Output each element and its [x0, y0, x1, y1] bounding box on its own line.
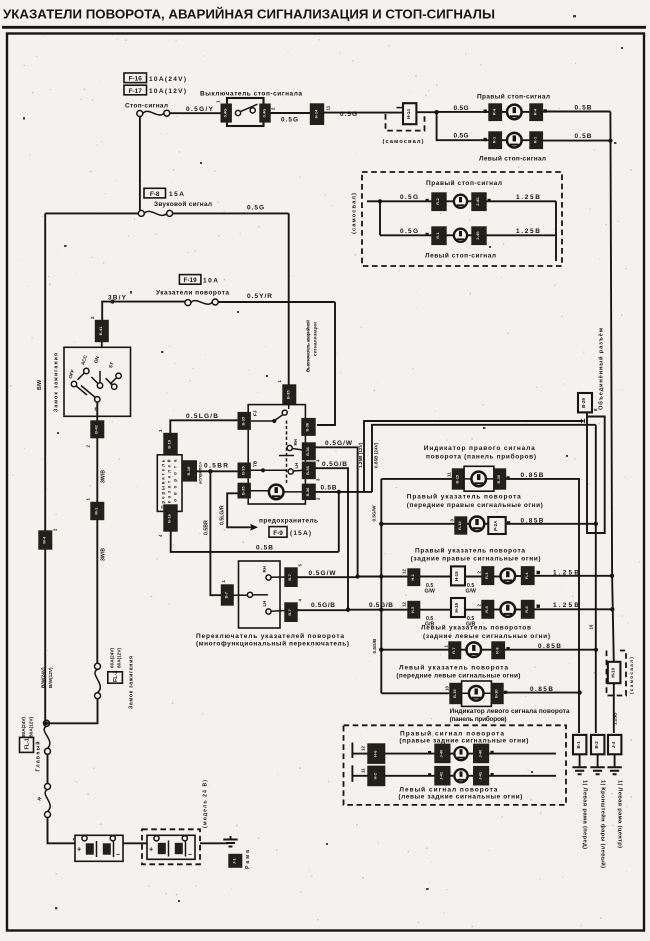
lamp left stop (dump): [454, 229, 467, 242]
node row3 right bus: [610, 574, 614, 578]
connector R-4 left: [489, 104, 501, 120]
svg-text:B-36: B-36: [305, 487, 310, 496]
wire: [521, 111, 530, 113]
terminal RH out: [285, 568, 297, 586]
wire 0.85B(24V) riser: [372, 425, 596, 492]
wire drop to hazard switch top: [288, 213, 290, 385]
pin tick: [491, 773, 494, 776]
svg-text:0.5Y/R: 0.5Y/R: [247, 293, 272, 300]
ground frame: [223, 836, 237, 847]
wire horn feed left: [45, 212, 138, 214]
svg-text:B-30: B-30: [493, 689, 498, 698]
right return bus: [610, 112, 613, 734]
node stop split: [434, 110, 438, 114]
svg-text:Левый стоп-сигнал: Левый стоп-сигнал: [479, 155, 546, 163]
svg-text:11: 11: [326, 105, 331, 110]
connector H-14 dump-truck variant: [397, 103, 417, 124]
svg-text:RH: RH: [293, 439, 298, 445]
wire B-42 down: [96, 438, 98, 503]
connector P-2A: [488, 517, 505, 534]
pilot lamp hazard: [269, 485, 284, 500]
connector B-15: [453, 469, 465, 489]
svg-text:H-1: H-1: [410, 573, 415, 580]
svg-text:B-7: B-7: [287, 608, 292, 615]
svg-text:G/W: G/W: [425, 589, 435, 595]
wire 1.25B(12V) riser: [364, 421, 583, 492]
svg-text:80A(24V): 80A(24V): [21, 716, 26, 737]
node row2 bus2: [594, 522, 598, 526]
svg-text:+: +: [149, 845, 153, 854]
wire row6 indicator left: [381, 692, 450, 694]
wire stop fuse drop: [139, 117, 141, 211]
svg-text:Замок зажигания: Замок зажигания: [129, 656, 135, 709]
svg-text:B-36: B-36: [305, 465, 310, 474]
contact OFF: [68, 369, 87, 395]
connector R-1 left: [489, 132, 501, 148]
wire: [515, 609, 522, 611]
svg-text:B-15: B-15: [455, 474, 460, 483]
svg-text:J-41: J-41: [439, 771, 444, 780]
svg-text:F-17: F-17: [129, 88, 143, 95]
connector J-41: [435, 767, 450, 785]
svg-text:Замок зажигания: Замок зажигания: [54, 353, 60, 412]
wire RH out to row3: [297, 576, 358, 578]
contact LH turn: [262, 601, 285, 614]
svg-text:H-15: H-15: [454, 571, 459, 581]
svg-text:11: 11: [361, 768, 366, 773]
lamp left stop-signal: [507, 133, 522, 148]
terminal LH out: [285, 603, 297, 621]
svg-text:3B/Y: 3B/Y: [108, 294, 127, 301]
terminal BL fuse feed: [238, 483, 250, 497]
ground left frame front: [572, 754, 586, 774]
node 0.5BR: [208, 469, 212, 473]
wire: [468, 753, 474, 755]
svg-text:Левый указатель поворота: Левый указатель поворота: [399, 663, 508, 671]
lamp front left turn: [467, 642, 482, 657]
svg-text:R-1: R-1: [532, 136, 537, 143]
wire LH out to row4: [297, 609, 348, 611]
svg-text:Правый указатель поворота: Правый указатель поворота: [415, 546, 525, 554]
terminal RH: [303, 443, 316, 460]
wire: [467, 200, 472, 202]
contact RH turn: [262, 566, 285, 580]
node row3 bus: [379, 574, 383, 578]
svg-text:H-10: H-10: [610, 667, 615, 677]
svg-text:–: –: [188, 850, 192, 859]
connector H-5: [408, 602, 420, 618]
fuse label F-8: [144, 188, 184, 198]
node row6 bus1: [577, 690, 581, 694]
lamp right stop (dump): [454, 195, 467, 208]
label 60A(24V) 80A(12V) vertical: [110, 647, 122, 668]
svg-text:поворота (панель приборов): поворота (панель приборов): [426, 452, 536, 460]
svg-text:B-7: B-7: [224, 591, 229, 598]
svg-text:(задние левые сигнальные огни): (задние левые сигнальные огни): [423, 633, 550, 640]
dashed box H-10: [607, 651, 627, 696]
connector R-4: [522, 567, 534, 585]
connector H-10: [608, 662, 621, 683]
svg-text:B-29: B-29: [581, 398, 586, 408]
svg-text:J-40: J-40: [439, 749, 444, 758]
wire row6 to bus1: [503, 692, 580, 694]
svg-text:0.5B: 0.5B: [321, 485, 337, 492]
node row4 LH feed: [346, 608, 350, 612]
wire FL-2 to left bus: [46, 699, 98, 724]
svg-text:R-8: R-8: [494, 647, 499, 654]
connector R-7: [449, 642, 461, 659]
svg-text:B-15: B-15: [452, 689, 457, 698]
svg-text:Правый сигнал поворота: Правый сигнал поворота: [400, 729, 504, 737]
wire 0.5BR B-18 to hazard TB: [196, 470, 238, 472]
svg-text:R-5: R-5: [484, 606, 489, 613]
indicator lamp left: [469, 686, 484, 701]
wire to right: [486, 200, 556, 202]
dashed variant box (самосвал): [386, 114, 425, 131]
fuse F-8 horn: [138, 210, 172, 216]
wire row3 to right bus: [534, 575, 612, 577]
contact LH: [288, 463, 303, 474]
connector R-2: [432, 193, 446, 210]
wire right stop row: [380, 200, 432, 202]
svg-text:0.5G: 0.5G: [281, 117, 298, 124]
lamp rear right dump: [454, 747, 467, 760]
svg-text:–: –: [116, 850, 120, 859]
indicator lamp right: [471, 472, 486, 487]
svg-text:0.5B: 0.5B: [575, 133, 592, 140]
connector B-19: [164, 434, 177, 455]
fusible link FL-2: [95, 663, 101, 698]
svg-text:FL-1: FL-1: [25, 738, 31, 749]
svg-text:1.25B (12V): 1.25B (12V): [358, 442, 363, 468]
wire B-7 into box: [233, 594, 247, 596]
connector B-30: [491, 684, 503, 704]
svg-text:(левые задние сигнальные огни): (левые задние сигнальные огни): [398, 793, 522, 800]
fuse label F-17: [124, 85, 186, 95]
wire label 0.5 G/B stacked: [425, 616, 434, 628]
battery 24V model dashed: [142, 829, 200, 864]
bus 0.85B 24V down: [595, 425, 597, 733]
wire: [446, 234, 454, 236]
ignition switch box: [64, 347, 131, 416]
svg-text:80A(12V): 80A(12V): [117, 647, 122, 668]
contact aux: [110, 373, 121, 384]
wire: [494, 609, 501, 611]
svg-text:B-36: B-36: [305, 422, 310, 431]
contact ACC: [78, 354, 90, 380]
svg-text:R-14: R-14: [457, 521, 462, 530]
stop lamp switch U1: [221, 98, 270, 126]
wire drop to hazard B-36: [317, 302, 335, 425]
svg-text:Левый указатель поворотов: Левый указатель поворотов: [421, 624, 531, 632]
svg-text:1| Левая рама (перед): 1| Левая рама (перед): [581, 780, 587, 849]
svg-text:J-1: J-1: [231, 858, 236, 865]
svg-text:0.5G/Y: 0.5G/Y: [186, 106, 214, 113]
svg-text:(панель приборов): (панель приборов): [450, 715, 507, 723]
connector R-5: [482, 601, 494, 619]
svg-text:H-6: H-6: [373, 750, 378, 757]
node row4 bus: [379, 608, 383, 612]
svg-text:B/W(24V): B/W(24V): [41, 667, 46, 688]
connector H-14: [311, 104, 324, 124]
wire left stop lamp row: [452, 139, 489, 141]
svg-text:J-4: J-4: [611, 741, 616, 748]
svg-text:0.5LG/R: 0.5LG/R: [220, 505, 226, 525]
wire: [468, 775, 474, 777]
svg-text:F-16: F-16: [129, 76, 143, 83]
pin tick: [428, 751, 431, 754]
lamp front right turn: [470, 517, 485, 532]
svg-text:3W/B: 3W/B: [101, 548, 107, 561]
svg-text:B-36: B-36: [305, 446, 310, 455]
pin tick: [504, 691, 507, 694]
svg-text:Левый стоп-сигнал: Левый стоп-сигнал: [425, 252, 496, 260]
svg-text:0.85B: 0.85B: [521, 472, 544, 479]
fuse label F-16: [124, 73, 186, 83]
terminal LH: [303, 462, 316, 478]
wire M-1 down to FL-2: [96, 520, 98, 664]
wire between links: [47, 754, 49, 783]
connector 2-4S: [472, 227, 486, 244]
svg-text:B-41: B-41: [98, 326, 103, 335]
node row2: [379, 522, 383, 526]
wire ignition feed corner: [102, 302, 185, 321]
lamp rear right turn: [501, 569, 516, 584]
svg-text:(правые задние сигнальные огни: (правые задние сигнальные огни): [399, 738, 528, 745]
wire: [494, 576, 501, 578]
lamp rear left dump: [454, 769, 467, 782]
connector H-15: [451, 566, 465, 585]
svg-text:Правый указатель поворота: Правый указатель поворота: [407, 493, 521, 501]
svg-text:B-18: B-18: [186, 466, 191, 475]
hazard switch box: [248, 405, 305, 504]
svg-text:Правый стоп-сигнал: Правый стоп-сигнал: [426, 179, 502, 187]
svg-text:80A(12V): 80A(12V): [29, 716, 34, 737]
wire 0.5G/B LH out: [315, 468, 348, 610]
connector R-1: [432, 227, 446, 244]
svg-text:B/W(12V): B/W(12V): [48, 667, 53, 688]
ground headlamp bracket: [590, 754, 604, 774]
svg-text:R-4: R-4: [532, 108, 537, 115]
svg-text:F-9: F-9: [273, 530, 283, 537]
svg-text:Выключатель аварийной: Выключатель аварийной: [305, 320, 311, 372]
svg-text:H-14: H-14: [406, 109, 411, 119]
wire stop fuse to switch: [170, 112, 221, 114]
node row3 RH feed: [355, 574, 359, 578]
indicator lamp housing left: [462, 681, 492, 706]
svg-text:0.5G: 0.5G: [340, 111, 357, 118]
connector J-40 right: [474, 744, 489, 762]
svg-text:B-7: B-7: [287, 573, 292, 580]
svg-text:M-1: M-1: [94, 507, 99, 515]
svg-text:0.85B: 0.85B: [538, 643, 561, 650]
svg-text:B-35: B-35: [240, 486, 245, 495]
wire: [420, 576, 451, 578]
pin tick: [426, 199, 429, 202]
pin tick: [426, 233, 429, 236]
title: [2, 7, 646, 28]
svg-text:0.5G/W: 0.5G/W: [325, 440, 353, 447]
svg-text:H-5: H-5: [410, 606, 415, 613]
wire 0.5BR drop to turn switch: [210, 471, 221, 595]
svg-text:1.25B: 1.25B: [613, 712, 618, 725]
svg-text:0.85B (24V): 0.85B (24V): [374, 442, 379, 468]
wire left battery bus B/W: [44, 213, 46, 721]
svg-text:B-35: B-35: [286, 390, 291, 399]
connector B-35: [283, 385, 296, 404]
svg-text:B-42: B-42: [94, 424, 99, 433]
svg-text:2-4S: 2-4S: [475, 197, 480, 206]
wire 0.5G/W RH out: [315, 447, 358, 576]
fusible link lower: [45, 784, 51, 818]
pin tick: [507, 647, 510, 650]
svg-text:Переключатель указателей повор: Переключатель указателей поворота: [196, 632, 344, 640]
svg-text:0.5BR: 0.5BR: [204, 520, 210, 535]
lamp right stop-signal: [507, 105, 522, 120]
node left bus: [378, 199, 382, 203]
cross tick: [279, 455, 294, 457]
wire: [467, 523, 470, 525]
svg-text:R-3: R-3: [484, 572, 489, 579]
svg-text:0.5G/B: 0.5G/B: [322, 461, 347, 468]
svg-text:FL-2: FL-2: [113, 671, 119, 682]
svg-text:(передние левые сигнальные огн: (передние левые сигнальные огни): [396, 673, 520, 680]
svg-text:Рама: Рама: [245, 850, 251, 869]
wire to right bus: [542, 140, 610, 142]
fuse F-16/F-17 stop-signal: [137, 110, 170, 116]
node 0.5B: [337, 490, 341, 494]
svg-text:B-16: B-16: [167, 513, 172, 522]
hazard blade: [276, 404, 289, 420]
svg-text:TB: TB: [253, 460, 258, 467]
svg-text:Объединённый разъём: Объединённый разъём: [598, 328, 605, 410]
svg-text:10: 10: [445, 686, 450, 691]
svg-text:H-16: H-16: [454, 602, 459, 612]
svg-text:R-4: R-4: [524, 572, 529, 579]
svg-text:УКАЗАТЕЛИ ПОВОРОТА, АВАРИЙНАЯ: УКАЗАТЕЛИ ПОВОРОТА, АВАРИЙНАЯ СИГНАЛИЗАЦ…: [3, 7, 495, 22]
wire fuse F-9 feed: [227, 493, 251, 527]
svg-text:Стоп-сигнал: Стоп-сигнал: [125, 103, 168, 110]
node row4 right bus: [610, 607, 614, 611]
contact ON: [91, 355, 102, 388]
connector B-42: [91, 421, 104, 438]
wire: [465, 609, 482, 611]
svg-text:предохранитель: предохранитель: [259, 518, 318, 525]
wire: [420, 609, 451, 611]
svg-text:16: 16: [589, 624, 594, 629]
svg-text:0.5G: 0.5G: [400, 228, 418, 235]
svg-text:(передние правые сигнальные ог: (передние правые сигнальные огни): [407, 502, 543, 509]
connector R-1 right: [530, 132, 542, 148]
wire to node: [417, 111, 437, 113]
svg-text:FJ: FJ: [253, 410, 258, 416]
connector B-29: [578, 393, 592, 412]
svg-text:(15A): (15A): [290, 530, 311, 537]
ground left frame centre: [607, 754, 621, 774]
wire label 0.5 G/W stacked: [466, 583, 476, 595]
svg-text:Выключатель стоп-сигнала: Выключатель стоп-сигнала: [200, 90, 302, 97]
wire left bus vertical: [379, 201, 381, 235]
terminal BR: [303, 484, 316, 499]
connector R-8: [492, 642, 504, 659]
connector B-15: [450, 684, 462, 704]
svg-text:Левый сигнал поворота: Левый сигнал поворота: [399, 785, 497, 793]
wire row4 rear left: [348, 609, 408, 611]
svg-text:J-40: J-40: [477, 749, 482, 758]
connector B-1: [573, 735, 586, 754]
wire to right: [489, 775, 557, 777]
wire BL to lamp: [250, 490, 269, 492]
svg-text:F-8: F-8: [150, 191, 160, 198]
wire B-41 to ignition: [101, 342, 103, 353]
pin tick: [537, 605, 540, 608]
svg-text:H-2: H-2: [373, 772, 378, 779]
contact B: [81, 386, 100, 412]
wire: [446, 200, 454, 202]
svg-text:R-2: R-2: [435, 198, 440, 205]
wire: [515, 575, 522, 577]
terminal TB: [238, 463, 250, 477]
svg-text:указателей: указателей: [167, 459, 172, 508]
svg-text:1| Кронштейн фары (левый): 1| Кронштейн фары (левый): [599, 780, 606, 868]
node FL-1 top: [44, 721, 48, 725]
indicator lamp housing right: [464, 466, 494, 491]
svg-text:(многофункциональный переключа: (многофункциональный переключатель): [196, 640, 349, 648]
wire row3 rear right: [358, 576, 408, 578]
svg-text:Указатели поворота: Указатели поворота: [156, 289, 229, 296]
wire row5 front left: [381, 649, 449, 651]
wire: [467, 234, 472, 236]
wire row2 to bus2: [506, 523, 596, 525]
wire right stop lamp row: [437, 111, 489, 113]
svg-text:0.5G: 0.5G: [454, 133, 469, 140]
svg-text:B-19: B-19: [167, 439, 172, 448]
svg-text:12: 12: [361, 746, 366, 751]
contact RH: [287, 439, 303, 450]
svg-text:0.5G/B: 0.5G/B: [369, 602, 393, 609]
svg-text:0.5G: 0.5G: [247, 204, 264, 211]
svg-text:LH: LH: [262, 601, 267, 607]
svg-text:(самосвал): (самосвал): [352, 193, 358, 234]
wire row5 to bus2: [504, 649, 596, 651]
svg-text:0.85B: 0.85B: [521, 517, 544, 524]
svg-text:H-14: H-14: [313, 109, 318, 118]
svg-text:11: 11: [447, 472, 452, 477]
connector B-30: [494, 469, 506, 489]
pin tick: [484, 138, 487, 141]
svg-text:0.5LG/B: 0.5LG/B: [186, 413, 218, 420]
terminal B-36: [302, 419, 315, 436]
svg-text:10A(24V): 10A(24V): [149, 76, 186, 83]
wire switch to H-14: [270, 112, 311, 114]
svg-text:0.4G: 0.4G: [261, 109, 266, 118]
connector B-18: [183, 461, 196, 481]
left lamp bus: [380, 479, 382, 693]
label 80A(24V) 80A(12V) vertical: [21, 716, 34, 737]
svg-text:сигнализации: сигнализации: [313, 322, 318, 356]
wire label 0.5 G/B stacked: [466, 616, 475, 628]
connector J-41 right: [474, 767, 489, 785]
wire battery link: [123, 842, 147, 844]
svg-text:1| Левая рама (центр): 1| Левая рама (центр): [616, 780, 622, 848]
turn signal switch box: [239, 561, 281, 628]
node: [111, 300, 115, 304]
connector J-40: [435, 744, 450, 762]
svg-text:+: +: [77, 845, 81, 854]
label FL-1: [20, 737, 34, 752]
wire: [385, 775, 435, 777]
wire row B: [352, 775, 368, 777]
